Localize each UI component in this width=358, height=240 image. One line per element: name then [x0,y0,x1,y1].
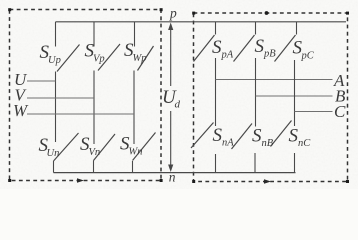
phase B column wire [255,58,257,127]
switch S_Un : stub to n rail [53,161,55,173]
svg-text:S: S [289,126,299,147]
svg-text:Un: Un [47,148,60,159]
switch S_pA : top vertical [215,22,217,35]
switch S_Wn : blade [133,133,156,161]
svg-text:S: S [213,125,223,146]
svg-text:nC: nC [298,138,311,149]
switch S_Up : top vertical [55,22,57,47]
switch S_Wn : stub to n rail [132,161,134,173]
wire output A [216,79,333,81]
switch S_pB : top vertical [255,22,257,35]
arrow mark on inverter bottom border [264,179,271,184]
svg-text:Vn: Vn [89,147,101,158]
switch S_Vp : top vertical [93,22,95,47]
switch S_Un : blade [54,133,79,161]
switch S_nC : blade [271,121,292,147]
node n : negative DC rail wire [54,172,296,174]
wire output C [295,111,333,113]
phase V column wire [93,71,95,145]
svg-text:Up: Up [48,55,61,66]
switch S_Vn : stub to n rail [93,161,95,173]
switch S_nB : stub to n rail [254,153,256,173]
node p : positive DC rail wire [56,21,347,23]
svg-text:Vp: Vp [93,54,105,65]
switch S_nB : blade [232,124,253,150]
switch S_pC : blade [275,35,296,62]
rectifier stage enclosure (dashed box) [10,10,162,181]
wire input W [27,113,134,115]
wire output B [256,95,333,97]
svg-text:pB: pB [263,49,276,60]
switch S_nA : stub to n rail [215,154,217,173]
corner dots of enclosures [8,8,349,183]
svg-text:S: S [212,37,222,58]
switch S_Up : blade [57,45,80,72]
phase U column wire [55,72,57,143]
svg-text:W: W [13,101,29,120]
wire input U [27,80,56,82]
phase A column wire [215,58,217,126]
wire input V [27,97,94,99]
svg-text:nA: nA [222,138,234,149]
inverter stage enclosure (dashed box) [194,13,348,182]
svg-text:Wn: Wn [129,147,143,158]
switch S_Wp : blade [138,46,154,71]
svg-text:d: d [175,99,181,111]
svg-text:S: S [255,36,265,57]
dot mark on inverter top border [265,11,269,15]
svg-text:pA: pA [221,50,234,61]
svg-text:n: n [169,170,176,185]
svg-text:S: S [252,126,262,147]
switch S_nC : stub to n rail [294,153,296,173]
svg-text:Wp: Wp [133,53,147,64]
svg-text:pC: pC [301,51,315,62]
switch S_pB : blade [234,35,255,62]
switch S_nA : blade [191,123,214,149]
switch S_Vn : blade [94,134,116,161]
svg-text:nB: nB [262,138,274,149]
DC-link voltage arrow Ud (double headed) [170,25,172,166]
svg-text:C: C [334,102,346,121]
phase C column wire [294,60,296,126]
switch S_Vp : blade [98,44,120,71]
arrow mark on rectifier bottom border [77,178,84,183]
phase W column wire [133,71,135,145]
switch S_pC : top vertical [296,22,298,35]
switch S_pA : blade [194,35,215,62]
switch S_Wp : top vertical [134,22,136,47]
svg-text:p: p [169,6,177,21]
